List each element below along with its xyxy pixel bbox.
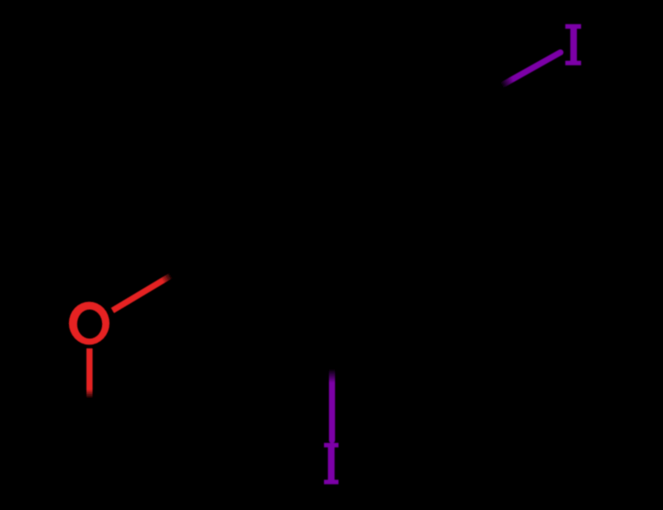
benzene ring C2-C3 bond (faint carbon) [332, 244, 452, 309]
atom label I bottom (iodine, purple) [324, 443, 339, 484]
benzene ring C6-C1 bond (faint carbon) [222, 113, 228, 243]
bond O to methyl CH3 (red half-bond) [86, 348, 92, 439]
benzene ring C1-C2 bond (faint carbon) [225, 243, 332, 308]
atom label I top-right (iodine, purple) [565, 24, 581, 65]
atom label O (oxygen, red) [69, 302, 110, 345]
benzene ring C4-C5 bond (faint carbon) [338, 48, 452, 114]
benzene ring C5-C6 bond (faint carbon) [225, 48, 338, 113]
aromatic inner double bond line C6-C1 [235, 128, 241, 228]
bond ring C4 to top iodine (purple half-bond) [452, 52, 561, 113]
aromatic inner double bond line C2-C3 [347, 245, 437, 294]
bond ring C2 to bottom iodine (purple half-bond) [329, 308, 335, 440]
benzene ring C3-C4 bond (faint carbon) [448, 114, 454, 244]
bond O to ring C1 (red half-bond) [113, 243, 226, 311]
aromatic inner double bond line C4-C5 [352, 75, 438, 125]
